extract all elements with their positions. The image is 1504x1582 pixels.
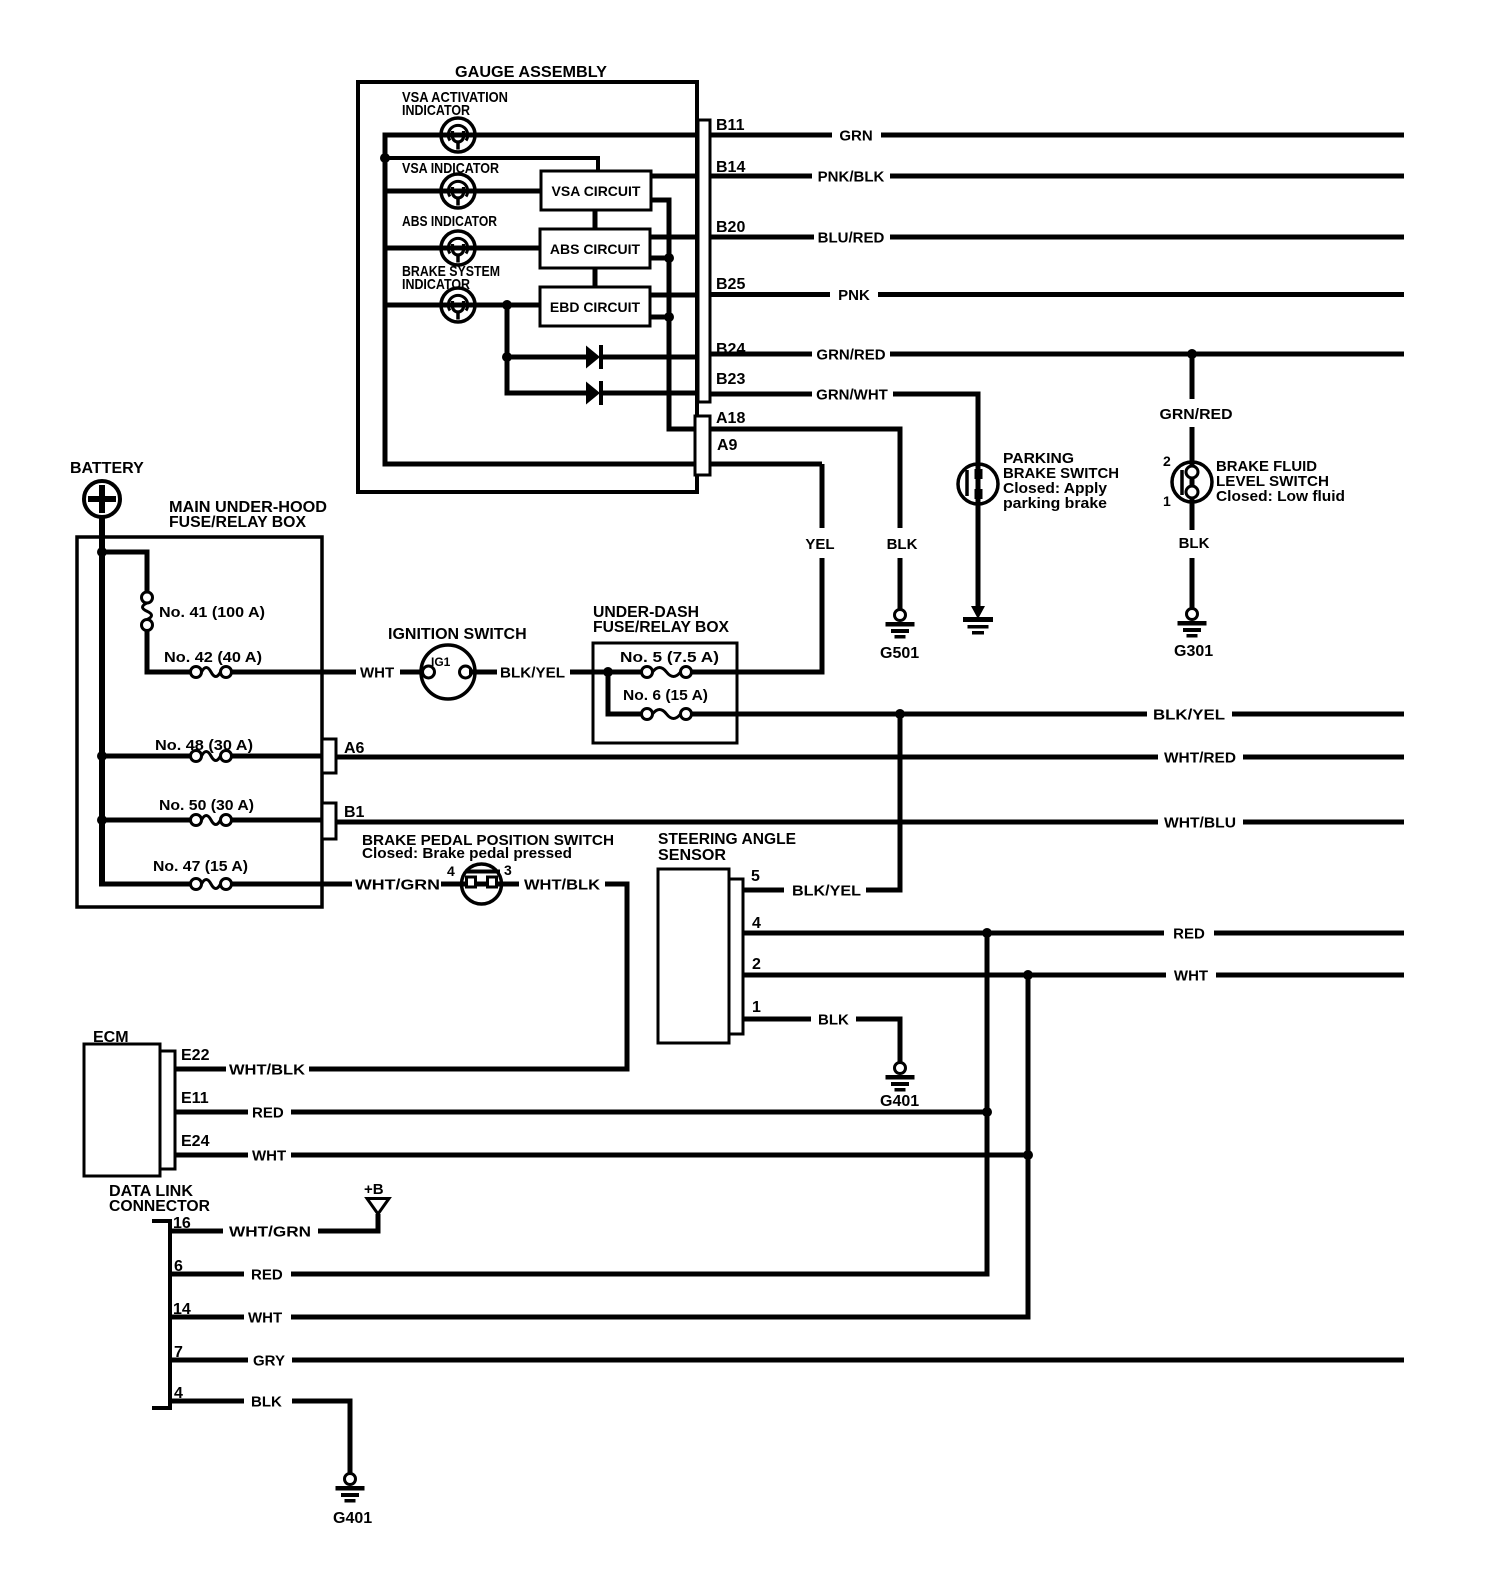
wire feed to fuse 6 (606, 672, 611, 717)
svg-text:+B: +B (364, 1181, 384, 1198)
lamp ABS indicator (441, 231, 475, 265)
fuse No. 48 (30 A) (191, 751, 232, 762)
wire A18 BLK to ground G501 (710, 427, 903, 432)
svg-text:G401: G401 (880, 1093, 919, 1110)
wire to fuse 5 (608, 670, 642, 675)
wire ignition switch to under-dash box BLK/YEL (469, 670, 497, 675)
connector strip (ECM) (160, 1051, 175, 1169)
wire A9 YEL to under-dash fuse box (710, 462, 822, 467)
wire net WHT/RED from A6 (336, 755, 1158, 760)
wire diode branch vertical (505, 305, 510, 396)
junction bus to fuse 48 (97, 751, 107, 761)
circuit block VSA CIRCUIT (541, 171, 651, 210)
svg-text:IGNITION SWITCH: IGNITION SWITCH (388, 626, 527, 643)
junction E11 RED to vertical (982, 1107, 992, 1117)
junction E24 WHT to vertical (1023, 1150, 1033, 1160)
svg-text:GRN: GRN (839, 128, 872, 145)
svg-text:CONNECTOR: CONNECTOR (109, 1198, 210, 1215)
wire link VSA-ABS circuits (593, 210, 598, 230)
svg-text:5: 5 (751, 868, 760, 885)
svg-text:E22: E22 (181, 1047, 210, 1064)
wire WHT vertical (steering pin 2 to DLC pin 14) (1026, 975, 1031, 1320)
svg-text:B20: B20 (716, 219, 745, 236)
wire parking brake switch drop (976, 394, 981, 606)
svg-text:No. 42 (40 A): No. 42 (40 A) (164, 649, 262, 666)
svg-text:E24: E24 (181, 1133, 210, 1150)
svg-text:WHT: WHT (252, 1148, 286, 1165)
svg-text:No. 5 (7.5 A): No. 5 (7.5 A) (620, 649, 719, 666)
wire row brake system indicator to EBD CIRCUIT (383, 303, 542, 308)
wire pin 14 WHT (170, 1315, 244, 1320)
wire net BLU/RED from B20 (710, 235, 814, 240)
svg-text:B25: B25 (716, 276, 745, 293)
svg-text:B23: B23 (716, 371, 745, 388)
wire fuse 42 to ignition switch WHT (232, 670, 357, 675)
svg-text:1: 1 (1163, 493, 1171, 509)
fuse No. 47 (15 A) (191, 879, 232, 890)
ignition switch SW-IG (421, 645, 475, 699)
svg-text:WHT/BLK: WHT/BLK (524, 877, 600, 894)
wire E11 RED (175, 1110, 248, 1115)
svg-text:WHT/BLU: WHT/BLU (1164, 815, 1236, 832)
wire net GRN/WHT from B23 to parking brake switch (710, 392, 812, 397)
wire E24 WHT (175, 1153, 248, 1158)
svg-text:RED: RED (1173, 926, 1205, 943)
svg-text:No. 50 (30 A): No. 50 (30 A) (159, 797, 254, 814)
svg-text:EBD CIRCUIT: EBD CIRCUIT (550, 299, 641, 315)
connector A6 (322, 739, 336, 773)
wire A18 stub to connector (667, 427, 697, 432)
under-dash fuse/relay box (593, 643, 737, 743)
lamp brake system indicator (441, 288, 475, 322)
connector strip (steering angle sensor) (729, 879, 743, 1034)
junction RED to ECM/DLC (982, 928, 992, 938)
svg-text:INDICATOR: INDICATOR (402, 276, 470, 293)
wire EBD CIRCUIT bottom to A18 vertical (650, 315, 672, 320)
junction diode 1 branch (502, 352, 512, 362)
wire net BLK/YEL from fuse 6 to right (692, 712, 1148, 717)
wire pin 16 WHT/GRN to +B (170, 1229, 223, 1234)
wire row A9 (bottom) to connector (383, 462, 697, 467)
svg-text:GRN/WHT: GRN/WHT (816, 387, 888, 404)
svg-text:G401: G401 (333, 1510, 372, 1527)
svg-text:No. 6 (15 A): No. 6 (15 A) (623, 687, 708, 704)
wire net WHT/BLU from B1 (336, 820, 1158, 825)
svg-text:VSA INDICATOR: VSA INDICATOR (402, 160, 499, 177)
data link connector bracket (152, 1219, 172, 1410)
svg-text:BLK: BLK (887, 536, 918, 553)
wire net RED from pin 4 (743, 931, 1164, 936)
parking brake switch S1 (958, 464, 998, 504)
svg-text:WHT: WHT (360, 665, 394, 682)
brake fluid level switch S2 (1172, 462, 1212, 502)
svg-text:2: 2 (1163, 453, 1171, 469)
svg-text:ABS CIRCUIT: ABS CIRCUIT (550, 241, 641, 257)
wire EBD CIRCUIT to pin B25 (650, 293, 698, 298)
svg-text:INDICATOR: INDICATOR (402, 102, 470, 119)
wire to diode 2 and pin B23 (505, 391, 587, 396)
svg-text:BLK: BLK (818, 1012, 849, 1029)
svg-text:4: 4 (752, 915, 761, 932)
ground at parking brake switch (963, 606, 993, 635)
wire pin 4 BLK to ground G401 (170, 1399, 244, 1404)
svg-text:FUSE/RELAY BOX: FUSE/RELAY BOX (593, 619, 729, 636)
svg-text:Closed: Brake pedal pressed: Closed: Brake pedal pressed (362, 845, 572, 862)
svg-text:No. 47 (15 A): No. 47 (15 A) (153, 858, 248, 875)
svg-text:RED: RED (252, 1105, 284, 1122)
junction WHT to ECM/DLC (1023, 970, 1033, 980)
junction GRN/RED to brake fluid level switch (1187, 349, 1197, 359)
wire E22 WHT/BLK (175, 1067, 226, 1072)
junction diode branch on brake indicator row (502, 300, 512, 310)
steering angle sensor box (658, 869, 729, 1043)
wire row ABS indicator to ABS CIRCUIT (383, 246, 542, 251)
svg-text:G301: G301 (1174, 643, 1213, 660)
svg-text:STEERING ANGLE: STEERING ANGLE (658, 831, 796, 848)
wire WHT/BLK to ECM E22 (605, 882, 630, 887)
wire net PNK from B25 (710, 292, 830, 297)
svg-text:BLU/RED: BLU/RED (818, 230, 885, 247)
svg-text:WHT/GRN: WHT/GRN (355, 877, 440, 894)
svg-text:B11: B11 (716, 117, 745, 134)
fuse No. 5 (7.5 A) (642, 667, 692, 678)
svg-text:BLK: BLK (1179, 535, 1210, 552)
wire VSA CIRCUIT bottom to A18 vertical (650, 198, 672, 203)
svg-text:GAUGE ASSEMBLY: GAUGE ASSEMBLY (455, 64, 607, 81)
wire row VSA activation indicator to B11 (383, 133, 699, 138)
battery (84, 481, 120, 517)
svg-text:FUSE/RELAY BOX: FUSE/RELAY BOX (169, 514, 306, 531)
lamp VSA indicator (441, 174, 475, 208)
fuse No. 6 (15 A) (642, 709, 692, 720)
junction EBD/A18 vertical (664, 312, 674, 322)
svg-text:WHT/RED: WHT/RED (1164, 750, 1236, 767)
ground G401 (steering sensor) (886, 1063, 915, 1092)
wire net GRN from B11 (710, 133, 832, 138)
svg-text:G501: G501 (880, 645, 919, 662)
fuse No. 41 (100 A) (142, 592, 153, 631)
wire fuse 47 to brake pedal position switch (232, 882, 353, 887)
svg-text:IG1: IG1 (431, 655, 451, 669)
svg-text:BLK/YEL: BLK/YEL (792, 883, 861, 900)
lamp VSA activation indicator (441, 118, 475, 152)
wire vertical to A18 (667, 200, 672, 432)
svg-text:BLK: BLK (251, 1394, 282, 1411)
svg-text:No. 41 (100 A): No. 41 (100 A) (159, 604, 265, 621)
svg-text:BATTERY: BATTERY (70, 460, 144, 477)
wire to brake pedal position switch (441, 882, 519, 887)
junction BLK/YEL to steering angle sensor (895, 709, 905, 719)
svg-text:YEL: YEL (805, 536, 834, 553)
svg-text:WHT/BLK: WHT/BLK (229, 1062, 305, 1079)
junction battery bus to fuse 41 (97, 547, 107, 557)
circuit block ABS CIRCUIT (540, 229, 650, 268)
connector strip B (gauge assembly) (698, 120, 710, 402)
svg-text:RED: RED (251, 1267, 283, 1284)
wire battery bus (99, 516, 105, 887)
wire GRN/RED drop to brake fluid level switch (1190, 354, 1195, 399)
power symbol +B (367, 1199, 389, 1215)
svg-text:PNK: PNK (838, 287, 870, 304)
svg-text:VSA CIRCUIT: VSA CIRCUIT (552, 183, 641, 199)
wire fuse 50 row (102, 818, 191, 823)
svg-text:ABS INDICATOR: ABS INDICATOR (402, 213, 497, 230)
wire gauge indicator common bus (left vertical) (383, 133, 388, 467)
fuse No. 50 (30 A) (191, 815, 232, 826)
svg-text:BLK/YEL: BLK/YEL (1153, 707, 1225, 724)
junction bus to fuse 50 (97, 815, 107, 825)
wire pin 1 BLK to ground G401 (743, 1017, 811, 1022)
svg-text:A9: A9 (717, 437, 738, 454)
svg-text:B14: B14 (716, 159, 745, 176)
svg-text:SENSOR: SENSOR (658, 847, 726, 864)
wire ABS CIRCUIT to pin B20 (650, 235, 698, 240)
svg-text:2: 2 (752, 956, 761, 973)
ground G401 (DLC) (336, 1474, 365, 1503)
brake pedal position switch S3 (462, 864, 502, 904)
junction bus/feed (380, 153, 390, 163)
wire fuse 50 to connector B1 (232, 818, 323, 823)
wire link ABS-EBD circuits (593, 268, 598, 287)
svg-text:GRY: GRY (253, 1353, 285, 1370)
diode D2 (586, 381, 601, 405)
ground G301 (1178, 609, 1207, 638)
wire pin 7 GRY (170, 1358, 248, 1363)
ECM box (84, 1044, 160, 1176)
wire fuse 42 row (147, 670, 191, 675)
svg-text:GRN/RED: GRN/RED (1160, 406, 1233, 423)
wire fuse 48 row (102, 754, 191, 759)
svg-text:WHT: WHT (248, 1310, 282, 1327)
gauge assembly outer box (358, 82, 697, 492)
svg-text:3: 3 (504, 862, 512, 878)
wire net WHT from pin 2 (743, 973, 1166, 978)
wire fuse 41 to fuse 42 (145, 630, 150, 675)
wire ABS CIRCUIT bottom to A18 vertical (650, 256, 672, 261)
svg-text:WHT/GRN: WHT/GRN (229, 1224, 311, 1241)
wire bus feed to VSA circuit top (383, 156, 601, 160)
svg-text:GRN/RED: GRN/RED (816, 347, 885, 364)
wire net GRN/RED from B24 (710, 352, 812, 357)
svg-text:E11: E11 (181, 1090, 209, 1107)
wire branch to fuse No.41 (102, 550, 150, 555)
wire fuse 48 to connector A6 (232, 754, 323, 759)
svg-text:BLK/YEL: BLK/YEL (500, 665, 565, 682)
connector strip A (gauge assembly) (695, 416, 710, 475)
wire net PNK/BLK from B14 (710, 174, 812, 179)
wire pin 5 BLK/YEL to under-dash fuse 6 net (743, 888, 784, 893)
svg-text:1: 1 (752, 999, 761, 1016)
fuse No. 42 (40 A) (191, 667, 232, 678)
svg-text:WHT: WHT (1174, 968, 1208, 985)
wire fuse 47 row (99, 882, 191, 887)
wire to diode 1 and pin B24 (505, 355, 587, 360)
junction fuse 5/6 feed (603, 667, 613, 677)
wire RED vertical (steering pin 4 to DLC pin 6) (985, 933, 990, 1277)
svg-text:parking brake: parking brake (1003, 495, 1107, 512)
svg-text:ECM: ECM (93, 1029, 129, 1046)
wire VSA CIRCUIT to pin B14 (650, 174, 698, 179)
svg-text:B1: B1 (344, 804, 365, 821)
ground G501 (886, 610, 915, 639)
junction ABS/A18 vertical (664, 253, 674, 263)
svg-text:No. 48 (30 A): No. 48 (30 A) (155, 737, 253, 754)
svg-text:A18: A18 (716, 410, 745, 427)
main under-hood fuse/relay box (77, 537, 322, 907)
svg-text:PNK/BLK: PNK/BLK (818, 169, 885, 186)
circuit block EBD CIRCUIT (540, 287, 650, 326)
wire BLK to ground G301 (1190, 558, 1195, 608)
diode D1 (586, 345, 601, 369)
wire pin 6 RED (170, 1272, 244, 1277)
connector B1 (322, 803, 336, 839)
svg-text:4: 4 (447, 863, 455, 879)
svg-text:A6: A6 (344, 740, 365, 757)
wire row VSA indicator to VSA CIRCUIT (383, 189, 542, 194)
svg-text:Closed: Low fluid: Closed: Low fluid (1216, 488, 1345, 505)
